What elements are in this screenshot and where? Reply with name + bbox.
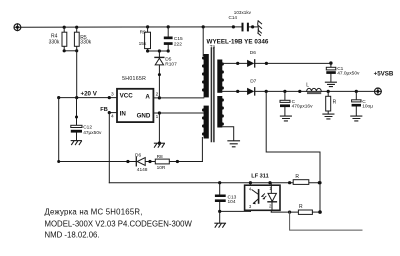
wire opto pin4 stub [249,183,251,186]
wire pin4 stub [109,112,117,114]
svg-text:C14: C14 [229,15,238,20]
label R lower [299,204,303,210]
transformer T1 primary winding [202,54,209,97]
svg-text:R: R [299,204,303,210]
label R4 330k [49,33,60,45]
wire +5V rail [255,90,375,92]
transformer T1 secondary winding upper [217,60,224,93]
wire drop left to lower rail [58,98,60,162]
label +5VSB [374,71,394,78]
transformer label [207,39,269,46]
ground chassis C13 [215,223,226,227]
capacitor C12 [71,98,82,141]
label 103x1kv C14 [229,10,252,20]
diode D6 [247,60,255,67]
wire drop to +20V node [76,51,78,98]
transistor opto phototransistor [252,190,259,205]
label opto pin numbers [249,186,272,209]
node top rail junctions [63,25,255,29]
diode D5 zener [155,51,164,98]
wire opto pin2 rail [271,211,298,213]
label R9 15k [139,30,147,48]
wire primary top drop [202,27,204,56]
label C 10oµ [362,99,373,110]
capacitor C 470µx16v [280,91,290,116]
ground R [323,114,334,119]
wire D7 anode [222,90,247,92]
svg-text:222: 222 [174,41,182,47]
label D7 [250,78,256,84]
label R5 330k [80,35,91,46]
svg-text:3: 3 [111,91,114,97]
diode D6 4148 [136,157,145,166]
svg-text:+5VSB: +5VSB [374,71,394,78]
svg-text:LF 311: LF 311 [251,173,268,179]
svg-text:470µx16v: 470µx16v [292,104,314,110]
wire pin1 GND to aux winding [153,112,203,114]
ground chassis IC [154,142,164,148]
wire opto pin3 stub [249,210,251,211]
resistor R lower right [298,210,312,214]
svg-text:R107: R107 [165,62,177,68]
resistor R9 [145,27,151,51]
svg-text:IN: IN [120,111,127,118]
svg-text:C15: C15 [174,36,183,42]
svg-text:C12: C12 [83,124,92,130]
label VCC A IN GND [120,92,151,119]
svg-text:5H0165R: 5H0165R [122,76,146,82]
label C 470µx16v [292,99,314,110]
label D6 4148 [135,152,148,173]
label +20 V [81,90,98,97]
wire bottom right run [290,212,362,230]
svg-text:15k: 15k [139,41,147,47]
label R8 10R [157,154,166,171]
label D5 R107 [165,57,177,68]
svg-text:+20 V: +20 V [81,90,98,97]
svg-text:R: R [333,100,337,106]
wire C13 ground drop [219,211,221,223]
transformer T1 aux winding [202,106,209,139]
svg-text:A: A [145,94,150,101]
wire aux bottom drop [201,138,203,162]
label pin numbers [111,91,159,120]
wire C14 to chassis [249,26,257,28]
capacitor C1 [326,63,336,82]
svg-text:10oµ: 10oµ [362,104,373,110]
svg-text:47µx50v: 47µx50v [83,130,102,136]
capacitor C13 [215,183,226,212]
wire R4 R5 bottom join [64,50,77,52]
ground C10o [351,116,362,121]
svg-text:Дежурка на МС 5H0165R,: Дежурка на МС 5H0165R, [45,208,143,217]
op-amp U1 5H0165R box [117,89,153,122]
svg-text:104: 104 [228,199,236,205]
label D6 [250,50,256,56]
wire GND drop [158,113,160,143]
svg-text:D7: D7 [250,78,256,84]
label 5H0165R [122,76,146,82]
svg-text:GND: GND [137,112,151,119]
terminal input [14,24,21,31]
svg-text:10R: 10R [157,165,166,171]
wire feedback rail [109,182,320,184]
label LF 311 [251,173,268,179]
terminal output [375,88,382,95]
svg-text:R: R [295,174,299,180]
svg-text:330k: 330k [80,39,91,45]
wire snubber bottom rail [148,50,169,52]
svg-text:330k: 330k [49,39,60,45]
wire FB drop [108,113,110,183]
svg-text:NMD -18.02.06.: NMD -18.02.06. [45,231,100,240]
wire C13 bottom to opto pin3 [220,210,251,212]
ground chassis C12 [71,141,81,145]
label C15 222 [174,36,183,47]
capacitor C15 [164,27,173,51]
wire D6 anode [222,62,247,64]
resistor R upper right [293,180,309,185]
ground C1 [325,82,336,86]
svg-text:R9: R9 [140,30,146,36]
label C13 104 [228,194,237,205]
ground secondary [228,141,240,147]
label C12 47µx50v [83,124,102,136]
ground C470 [280,116,291,121]
label Tp [210,44,216,49]
svg-text:FB: FB [100,107,107,113]
wire lower aux rail [59,161,203,163]
label R upper [295,174,299,180]
wire R lower to vertical [312,211,320,213]
wire +20V rail to pin3 [59,97,117,99]
wire D6 cathode rail [255,62,331,64]
wire opto pin1 stub [270,183,272,186]
svg-text:4: 4 [111,114,114,120]
label L [306,82,309,88]
inductor L [307,88,322,94]
svg-text:WYEEL-19B YE 0346: WYEEL-19B YE 0346 [207,39,269,46]
diode D7 [247,88,255,95]
resistor R8 [155,159,169,164]
svg-text:1: 1 [156,114,159,120]
wire feedback tap drop [266,91,320,211]
resistor R4 [62,27,67,51]
transformer T1 secondary winding lower [217,96,224,128]
ground chassis zigzag C14 [258,21,262,36]
svg-text:MODEL-300X V2.03 P4.CODEGEN-30: MODEL-300X V2.03 P4.CODEGEN-300W [45,220,193,229]
capacitor C14 [242,23,249,32]
svg-text:D6: D6 [250,50,256,56]
label FB [100,107,107,113]
wire top rail [21,26,242,28]
transformer core [211,48,214,142]
svg-text:2: 2 [156,91,159,97]
label C1 47.0µx50v [337,66,360,77]
node fb net [318,181,321,184]
label text block [45,208,193,240]
svg-text:47.0µx50v: 47.0µx50v [337,70,360,76]
svg-text:VCC: VCC [120,92,134,99]
wire pin2 A to transformer primary [153,97,203,99]
light arrows [262,194,267,199]
diode opto LED [268,185,276,210]
label R [333,100,337,106]
optocoupler U2 box [245,185,280,210]
wire opto pin2 stub [270,210,272,212]
wire secondary bottom to ground [222,127,233,141]
resistor R5 [74,27,79,51]
node FB [108,111,111,114]
svg-text:R8: R8 [157,154,163,160]
resistor R output [326,91,331,114]
svg-text:4148: 4148 [137,167,148,173]
svg-text:L: L [306,82,309,88]
capacitor C 10oµ [352,91,361,116]
svg-text:D6: D6 [135,152,141,158]
